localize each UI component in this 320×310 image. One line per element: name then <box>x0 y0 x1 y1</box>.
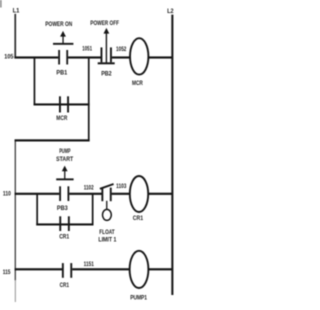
pushbutton PB2 NC contact <box>101 47 103 62</box>
wire CR1 branch left vertical <box>36 193 38 225</box>
svg-text:CR1: CR1 <box>133 215 144 222</box>
wire rung5 sub-rail to CR1 contact <box>15 268 63 270</box>
svg-text:CR1: CR1 <box>59 234 69 241</box>
svg-text:L1: L1 <box>13 8 20 15</box>
svg-text:L2: L2 <box>167 8 174 15</box>
contact CR1 NO rung5 <box>62 263 64 278</box>
wire rung1 PB2 to MCR coil <box>112 56 130 58</box>
wire junction 1051 vertical drop <box>88 57 90 141</box>
wire rung3 PB3 to float switch <box>69 193 102 195</box>
wire rung5 PUMP1 coil to L2 rail <box>149 268 173 270</box>
float switch FL1 lever <box>100 184 114 189</box>
svg-text:START: START <box>56 156 73 163</box>
svg-text:PB3: PB3 <box>57 205 68 212</box>
svg-text:1151: 1151 <box>84 261 95 268</box>
wire MCR sub-rail <box>15 140 16 281</box>
svg-text:1102: 1102 <box>84 184 94 191</box>
coil MCR <box>130 38 148 74</box>
pushbutton PB3 operator arrow <box>62 166 68 172</box>
pushbutton PB1 NO contact <box>58 50 60 65</box>
wire rung4 horizontal <box>36 223 93 225</box>
float switch FL1 stem <box>106 201 107 210</box>
wire CR1 branch right vertical <box>92 193 94 225</box>
coil CR1 <box>130 176 148 212</box>
svg-text:CR1: CR1 <box>60 282 70 289</box>
wire rung3 float switch to CR1 coil <box>112 193 131 195</box>
svg-text:MCR: MCR <box>56 115 68 122</box>
wire rung3 sub-rail to PB3 <box>15 193 60 195</box>
svg-text:LIMIT 1: LIMIT 1 <box>98 237 116 244</box>
wire L2 rail <box>171 15 173 295</box>
wire rung3 CR1 coil to L2 rail <box>148 193 172 195</box>
pushbutton PB2 bridge bar <box>98 62 115 64</box>
pushbutton PB2 operator arrow <box>104 28 110 34</box>
contact CR1 seal-in NO <box>59 216 61 231</box>
pushbutton PB1 operator arrow <box>60 31 66 37</box>
coil PUMP1 <box>130 251 149 288</box>
svg-text:1051: 1051 <box>82 46 92 53</box>
svg-text:115: 115 <box>3 269 11 276</box>
pushbutton PB1 operator bar <box>53 43 73 45</box>
svg-text:1052: 1052 <box>116 46 127 53</box>
svg-text:MCR: MCR <box>132 80 143 87</box>
wire rung1 L1 rail to PB1 <box>14 56 58 58</box>
float switch FL1 contact <box>101 188 103 202</box>
contact MCR seal-in NO <box>59 96 61 112</box>
wire L1 rail <box>14 14 16 59</box>
svg-text:POWER ON: POWER ON <box>45 21 72 28</box>
wire feed horizontal to sub-rail <box>15 139 90 141</box>
svg-text:105: 105 <box>4 53 14 60</box>
svg-text:PB1: PB1 <box>56 69 67 76</box>
svg-text:PB2: PB2 <box>101 71 112 78</box>
wire seal-in branch left vertical <box>34 57 36 105</box>
svg-text:PUMP1: PUMP1 <box>130 295 147 302</box>
wire rung1 PB1 to PB2 <box>68 56 100 58</box>
wire rung2 horizontal <box>34 103 90 105</box>
scan artifact top-left corner <box>0 0 2 8</box>
svg-text:110: 110 <box>3 191 11 198</box>
pushbutton PB3 operator bar <box>56 178 73 180</box>
svg-text:1103: 1103 <box>116 183 127 190</box>
float switch FL1 ball <box>103 209 112 220</box>
svg-text:POWER OFF: POWER OFF <box>90 20 119 27</box>
wire rung1 MCR coil to L2 rail <box>148 56 172 58</box>
svg-text:PUMP: PUMP <box>59 148 70 155</box>
pushbutton PB3 NO contact <box>59 186 61 201</box>
svg-text:FLOAT: FLOAT <box>99 229 115 236</box>
wire rung5 CR1 to PUMP1 coil <box>72 268 130 270</box>
